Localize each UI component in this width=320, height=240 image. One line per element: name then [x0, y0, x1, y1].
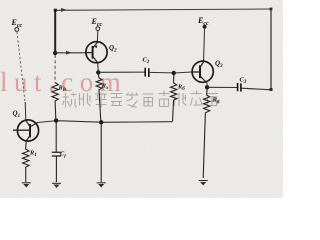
- wire: [55, 51, 86, 55]
- node: [172, 71, 176, 75]
- capacitor C2: [143, 57, 150, 78]
- node: [96, 70, 100, 74]
- wire: [149, 71, 174, 74]
- ground: [199, 181, 208, 186]
- resistor RB: [52, 55, 67, 119]
- node: [99, 120, 103, 124]
- wire: [174, 72, 192, 73]
- wire: [100, 123, 102, 182]
- ground: [22, 183, 31, 188]
- transistor Q2: [86, 31, 117, 71]
- wire: [241, 88, 271, 90]
- node: [205, 85, 209, 89]
- wire: [101, 121, 173, 124]
- ground: [52, 183, 61, 188]
- transistor Q1: [13, 102, 39, 141]
- wire: [57, 121, 101, 123]
- resistor Re: [96, 74, 108, 121]
- transistor Q3: [192, 29, 223, 86]
- wire: [98, 71, 144, 73]
- power terminal Ecc3: [197, 16, 209, 29]
- node: [53, 51, 57, 55]
- wire: [54, 8, 273, 12]
- capacitor C3: [238, 77, 247, 92]
- resistor R1: [23, 141, 37, 182]
- wire: [207, 86, 237, 88]
- wire: [54, 11, 56, 54]
- capacitor Cf: [52, 122, 66, 182]
- resistor R6: [204, 89, 220, 113]
- resistor Rb: [171, 75, 186, 122]
- wire: [270, 9, 272, 90]
- node: [54, 118, 58, 122]
- power terminal Ecc2: [91, 17, 103, 30]
- wire: [203, 113, 205, 179]
- power terminal Ecc1: [11, 18, 23, 31]
- ground: [97, 183, 106, 188]
- wire: [17, 32, 25, 102]
- wire: [38, 121, 58, 123]
